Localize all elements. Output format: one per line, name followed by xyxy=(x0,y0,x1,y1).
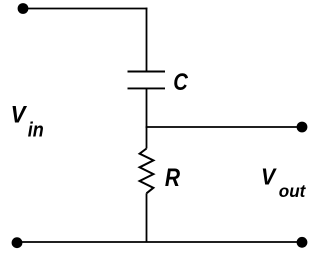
node label Vin xyxy=(11,101,44,142)
wire: bottom horizontal rail xyxy=(17,241,302,243)
svg-text:in: in xyxy=(28,120,44,142)
resistor R (zigzag) xyxy=(140,149,154,194)
svg-text:R: R xyxy=(165,163,180,191)
svg-text:out: out xyxy=(279,181,307,202)
wire: middle horizontal from node A to output terminal xyxy=(146,126,302,128)
bottom-left terminal (dot) xyxy=(12,237,23,248)
output terminal (right dot) xyxy=(297,122,308,133)
input terminal (top-left dot) xyxy=(18,3,29,14)
bottom-right terminal (dot) xyxy=(297,237,308,248)
svg-text:V: V xyxy=(11,101,28,128)
wire: resistor bottom down to bottom rail xyxy=(146,193,148,242)
wire: capacitor bottom plate down to node A xyxy=(146,88,148,128)
wire: node A down to resistor top xyxy=(146,127,148,149)
node label Vout xyxy=(261,164,306,201)
svg-text:V: V xyxy=(261,164,277,190)
capacitor C (two plates) xyxy=(128,72,166,89)
wire: vertical from top wire down to capacitor top plate xyxy=(146,8,148,72)
wire: top horizontal from input terminal to capacitor branch xyxy=(23,8,147,10)
svg-text:C: C xyxy=(173,68,188,95)
